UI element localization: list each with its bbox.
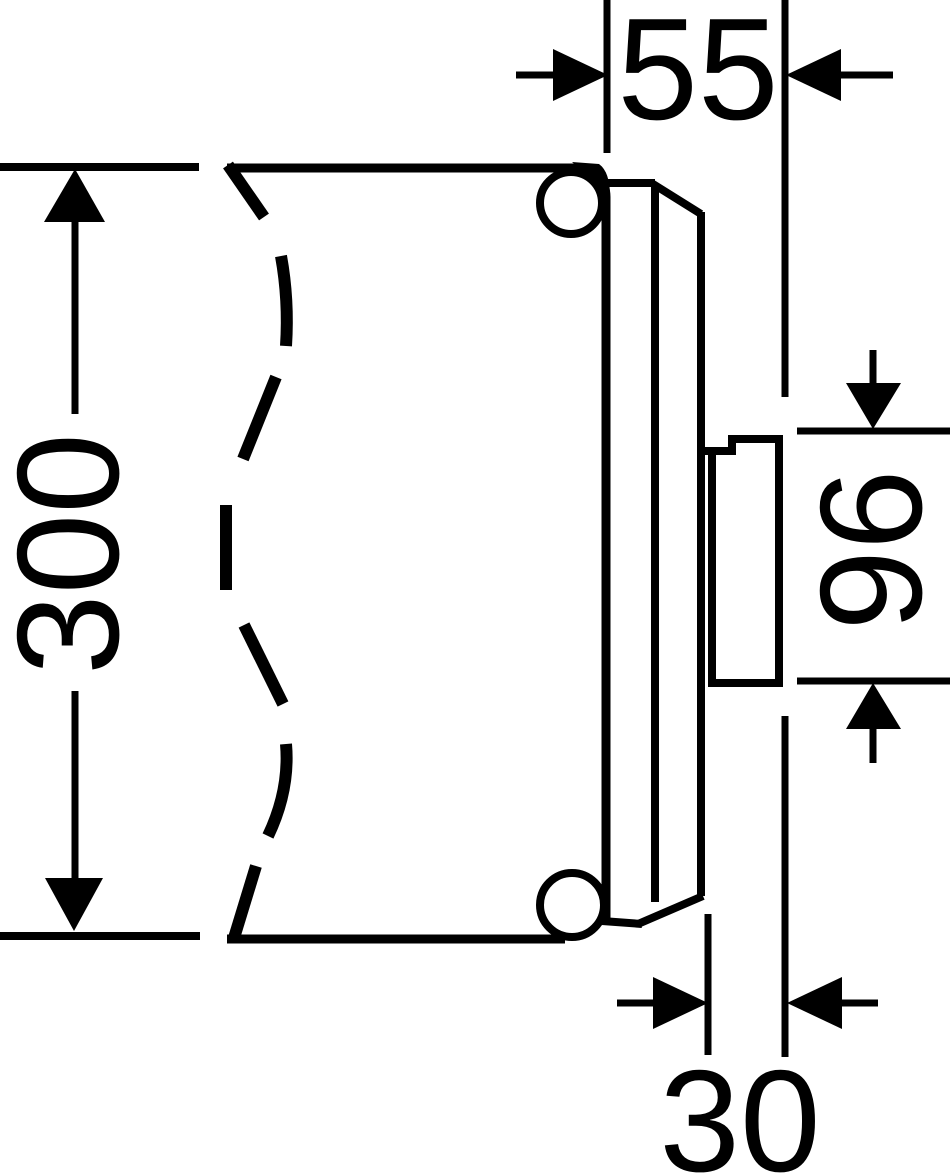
panel top edge with rounded corner and right edge — [227, 168, 606, 921]
extension line 30 right (long vertical, lower part) — [782, 716, 789, 1057]
extension line top-left (panel top edge projection) — [0, 163, 199, 171]
dimension 30 right stem — [839, 1000, 878, 1007]
extension line 30 left — [705, 914, 712, 1055]
break line dash 3 — [243, 377, 276, 459]
break line dash 5 — [244, 625, 283, 704]
extension line 96 top — [797, 428, 950, 435]
svg-text:96: 96 — [790, 469, 950, 630]
dimension 30 left stem — [617, 1000, 656, 1007]
dimension line 300 lower stem — [72, 691, 79, 880]
break line dash 4 — [220, 505, 232, 590]
panel corner fill top-right — [572, 162, 610, 196]
break line dash 2 — [281, 256, 287, 346]
dimension 300 arrow down — [45, 878, 103, 931]
break line dash 7 — [234, 866, 256, 938]
panel bottom edge — [227, 935, 565, 944]
back layer edge — [697, 212, 705, 896]
dimension 55 left stem — [516, 72, 556, 79]
dimension 55 arrow left-pointing — [786, 49, 841, 101]
dimension 96 upper stem — [870, 350, 877, 386]
dimension 300 arrow up — [44, 169, 105, 222]
svg-text:300: 300 — [0, 433, 149, 675]
dimension 55 arrow right-pointing — [553, 49, 608, 101]
dimension 30 arrow right-pointing — [653, 977, 708, 1029]
extension line 55 left — [604, 0, 611, 153]
bottom shelf (panel to middle layer) — [602, 921, 642, 924]
dimension 96 arrow up-pointing — [846, 683, 901, 729]
screw circle top — [540, 172, 602, 234]
dimension 55 right stem — [838, 72, 893, 79]
extension line 55/30 right (long vertical, upper part) — [782, 0, 789, 397]
dimension 96 lower stem — [870, 726, 877, 763]
top diagonal (middle to back layer) — [653, 184, 701, 214]
extension line 96 bottom — [797, 678, 950, 685]
bracket nub outline — [701, 439, 779, 683]
extension line bottom-left (panel bottom edge projection) — [0, 932, 200, 940]
bottom diagonal (middle to back layer) — [638, 896, 703, 924]
break line dash 1 — [228, 165, 264, 217]
top shelf (panel to middle layer) — [598, 179, 655, 187]
dimension line 300 upper stem — [72, 218, 79, 414]
dimension 30 arrow left-pointing — [787, 977, 842, 1029]
break line dash 6 — [268, 744, 287, 836]
screw circle bottom — [540, 873, 604, 937]
dimension 96 arrow down-pointing — [846, 383, 901, 429]
svg-text:55: 55 — [617, 0, 778, 150]
svg-text:30: 30 — [659, 1040, 820, 1176]
middle layer edge — [651, 183, 659, 902]
